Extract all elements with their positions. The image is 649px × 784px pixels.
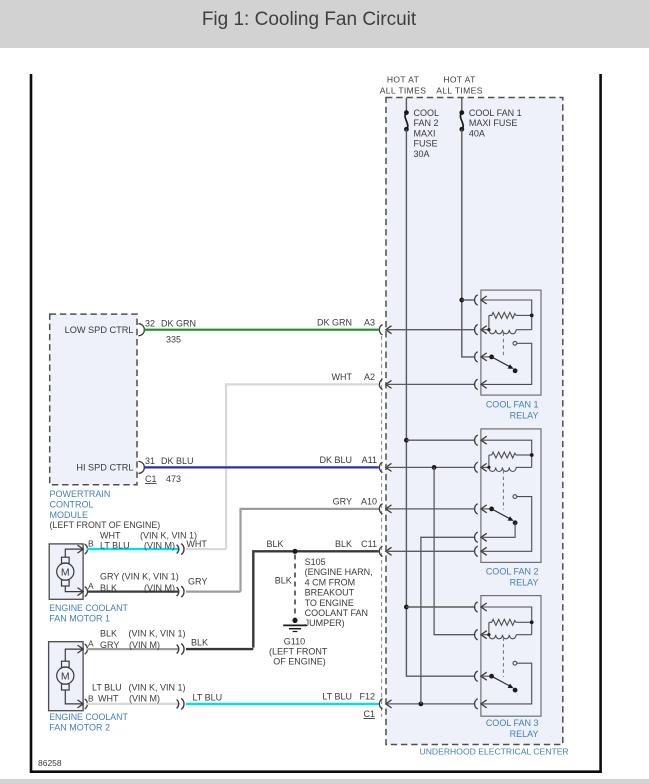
junction dot fuse2/relay3 pin1	[404, 605, 409, 610]
wire GRY after connector	[186, 590, 241, 592]
svg-text:WHT: WHT	[100, 530, 121, 540]
junction dot fuse1/relay1 pin1	[459, 298, 464, 303]
svg-text:HOT AT: HOT AT	[443, 75, 475, 85]
svg-text:COOL: COOL	[414, 108, 440, 118]
wire GRY/BLK motor2 A segment	[87, 648, 179, 650]
svg-text:(VIN K, VIN 1): (VIN K, VIN 1)	[129, 629, 186, 639]
svg-text:A10: A10	[361, 496, 377, 506]
svg-text:GRY: GRY	[188, 577, 207, 587]
svg-text:LT BLU: LT BLU	[100, 540, 130, 550]
junction dot resistor/right leg (relay2)	[530, 453, 534, 457]
svg-text:ENGINE COOLANT: ENGINE COOLANT	[49, 603, 128, 613]
COOL FAN 3 RELAY box	[481, 596, 541, 717]
inline connector (motor1 A)	[177, 586, 184, 597]
svg-text:OF ENGINE): OF ENGINE)	[273, 657, 326, 667]
wire DK BLU 473 (PCM 31 to UEC A11)	[144, 466, 379, 468]
junction dot resistor/right leg	[530, 314, 534, 318]
label S105 (ENGINE HARN, 4 CM FROM BREAKOUT TO ENGINE COOLANT FAN JUMPER)	[305, 557, 373, 628]
svg-text:86258: 86258	[38, 758, 62, 768]
motor2 terminal B	[78, 699, 88, 709]
svg-text:GRY: GRY	[100, 640, 119, 650]
connector F12	[379, 699, 391, 709]
wire F12 to relay3 pin4	[386, 703, 475, 705]
PCM pin 31	[138, 461, 144, 473]
relay1 NO contact circle	[513, 341, 517, 345]
wire WHT (corner from motor1 B up to UEC A2)	[226, 384, 379, 549]
svg-text:RELAY: RELAY	[510, 578, 539, 588]
svg-text:A: A	[88, 639, 94, 649]
wire fuse2 to relay3 pin1	[406, 606, 475, 608]
svg-text:COOLANT FAN: COOLANT FAN	[305, 608, 368, 618]
svg-text:DK GRN: DK GRN	[317, 317, 352, 327]
svg-text:(VIN M): (VIN M)	[129, 640, 160, 650]
svg-text:ALL TIMES: ALL TIMES	[380, 86, 427, 96]
junction dot coil/left leg	[487, 328, 490, 331]
POWERTRAIN CONTROL MODULE dashed box	[50, 314, 137, 485]
junction dot F12 branch	[419, 702, 424, 707]
wire WHT/LT BLU motor2 B segment	[87, 703, 179, 705]
connector A2	[379, 379, 391, 389]
svg-text:A: A	[88, 581, 94, 591]
wire A3 to relay1 coil	[386, 329, 475, 331]
ENGINE COOLANT FAN MOTOR 1 box	[49, 544, 83, 599]
svg-text:HI SPD CTRL: HI SPD CTRL	[76, 463, 133, 473]
svg-text:DK BLU: DK BLU	[161, 456, 194, 466]
svg-text:BLK: BLK	[191, 637, 208, 647]
wire BLK (corner from motor2 A up and right to UEC C11)	[253, 551, 378, 647]
relay1 pin connectors	[475, 295, 487, 305]
motor1 terminal A	[78, 587, 88, 597]
svg-text:LOW SPD CTRL: LOW SPD CTRL	[65, 325, 134, 335]
fuse COOL FAN 1 MAXI FUSE 40A	[459, 98, 464, 132]
svg-text:F12: F12	[359, 691, 375, 701]
wire A2 to relay1 contact	[386, 383, 475, 385]
svg-text:RELAY: RELAY	[510, 729, 539, 739]
svg-text:G110: G110	[284, 636, 305, 646]
wire A11 to relay2 coil	[386, 466, 475, 468]
svg-text:BLK: BLK	[100, 629, 117, 639]
svg-text:WHT: WHT	[332, 372, 353, 382]
wire LT BLU (motor2 B to UEC F12)	[186, 703, 379, 705]
svg-text:(ENGINE HARN,: (ENGINE HARN,	[305, 567, 373, 577]
connector A11	[379, 462, 391, 472]
svg-text:B: B	[88, 539, 94, 549]
ground G110	[283, 618, 307, 632]
svg-text:BLK: BLK	[335, 539, 352, 549]
svg-text:(VIN M): (VIN M)	[144, 583, 175, 593]
svg-text:DK BLU: DK BLU	[319, 455, 352, 465]
svg-text:M: M	[61, 567, 70, 579]
wire from fuse 2 down (feeds relay 2 pin1, relay 3 pin1 and pin3)	[406, 129, 475, 676]
wire relay2 pin4 down to F12 row	[421, 537, 475, 704]
motor M2 symbol	[57, 649, 83, 704]
resistor (relay2 coil suppression)	[489, 452, 516, 458]
inline connector (motor2 B)	[177, 698, 184, 709]
motor1 terminal B	[78, 544, 88, 554]
wire fuse2 to relay2 pin1	[406, 439, 475, 441]
svg-text:C1: C1	[363, 709, 375, 719]
svg-text:31: 31	[145, 456, 155, 466]
svg-text:B: B	[88, 693, 94, 703]
motor M1 symbol	[57, 549, 83, 592]
COOL FAN 1 RELAY box	[481, 290, 541, 395]
svg-text:MAXI: MAXI	[414, 128, 436, 138]
svg-text:473: 473	[166, 474, 181, 484]
wire NO contact to pin4	[481, 343, 532, 384]
wire fuse1 to relay1 pin1	[462, 299, 475, 301]
junction dot resistor/right leg (relay3)	[530, 620, 534, 624]
wire A10 to relay2 switch common	[386, 508, 475, 510]
relay2 pin connectors	[475, 435, 487, 445]
connector C11	[379, 546, 391, 556]
svg-text:BLK: BLK	[267, 539, 284, 549]
label COOL FAN 2 MAXI FUSE 30A	[414, 108, 440, 159]
svg-text:COOL FAN 3: COOL FAN 3	[486, 718, 539, 728]
svg-text:MAXI FUSE: MAXI FUSE	[469, 118, 518, 128]
svg-text:32: 32	[145, 318, 155, 328]
connector A10	[379, 504, 391, 514]
drawing frame border	[30, 74, 602, 772]
junction dot coil/left leg (relay2)	[487, 466, 490, 469]
relay1 coil	[489, 330, 516, 334]
relay2 switch arm	[481, 507, 517, 526]
wire BLK/GRY motor1 A segment	[87, 590, 179, 592]
relay3 pin connectors	[475, 602, 487, 612]
relay1 switch arm	[481, 355, 517, 374]
svg-text:CONTROL: CONTROL	[50, 499, 94, 509]
svg-text:DK GRN: DK GRN	[161, 318, 196, 328]
svg-text:COOL FAN 1: COOL FAN 1	[469, 108, 522, 118]
svg-text:LT BLU: LT BLU	[92, 682, 122, 692]
svg-text:WHT: WHT	[98, 694, 119, 704]
svg-text:TO ENGINE: TO ENGINE	[305, 598, 354, 608]
svg-text:C11: C11	[361, 539, 377, 549]
splice S105 junction dot	[292, 549, 297, 554]
svg-text:C1: C1	[145, 474, 157, 484]
inline connector (motor1 B)	[177, 544, 184, 555]
svg-text:A2: A2	[364, 372, 375, 382]
svg-text:4 CM FROM: 4 CM FROM	[305, 577, 356, 587]
svg-text:A11: A11	[362, 455, 377, 465]
resistor (relay1 coil suppression)	[489, 312, 516, 318]
relay2 armature link (dashed)	[502, 470, 504, 509]
relay2 NO contact circle	[513, 495, 517, 499]
svg-text:FUSE: FUSE	[414, 139, 438, 149]
fuse COOL FAN 2 MAXI FUSE 30A	[404, 98, 409, 132]
wire WHT after connector	[186, 548, 226, 550]
COOL FAN 2 RELAY box	[481, 429, 541, 563]
svg-text:POWERTRAIN: POWERTRAIN	[50, 489, 111, 499]
relay2 internal wires	[481, 440, 532, 467]
wire NO contact to pin4 (relay3)	[481, 663, 532, 704]
svg-text:GRY: GRY	[333, 496, 352, 506]
svg-text:LT BLU: LT BLU	[322, 691, 352, 701]
junction dot coil/left leg (relay3)	[487, 633, 490, 636]
svg-text:LT BLU: LT BLU	[193, 692, 223, 702]
svg-text:ALL TIMES: ALL TIMES	[436, 86, 483, 96]
svg-text:(VIN M): (VIN M)	[144, 540, 175, 550]
resistor (relay3 coil suppression)	[489, 619, 516, 625]
svg-text:ENGINE COOLANT: ENGINE COOLANT	[49, 712, 128, 722]
svg-text:A3: A3	[364, 317, 375, 327]
relay3 internal wires	[481, 607, 532, 635]
junction dot A11 branch	[432, 465, 437, 470]
svg-text:(VIN K, VIN 1): (VIN K, VIN 1)	[129, 682, 186, 692]
wire A11 branch down to relay3 coil	[434, 467, 475, 634]
relay3 coil	[489, 635, 516, 639]
svg-text:COOL FAN 1: COOL FAN 1	[486, 400, 539, 410]
ENGINE COOLANT FAN MOTOR 2 box	[49, 642, 84, 711]
svg-text:BLK: BLK	[100, 583, 117, 593]
inline connector (motor2 A)	[177, 644, 184, 655]
svg-text:FAN 2: FAN 2	[414, 118, 439, 128]
svg-text:M: M	[61, 671, 70, 683]
svg-text:COOL FAN 2: COOL FAN 2	[486, 567, 539, 577]
wire BLK after connector	[186, 648, 253, 650]
junction dot fuse2/relay2 pin1	[404, 438, 409, 443]
svg-text:S105: S105	[305, 557, 326, 567]
svg-text:(LEFT FRONT: (LEFT FRONT	[269, 647, 328, 657]
wire NO contact to pin5 (relay2)	[481, 497, 532, 552]
svg-text:40A: 40A	[469, 128, 485, 138]
svg-text:WHT: WHT	[186, 539, 207, 549]
svg-text:RELAY: RELAY	[510, 411, 539, 421]
svg-text:GRY (VIN K, VIN 1): GRY (VIN K, VIN 1)	[100, 572, 179, 582]
wire DK GRN 335 (PCM 32 to UEC A3)	[144, 329, 379, 331]
wire C11 to relay2 pin5	[386, 550, 475, 552]
relay1 internal wires	[481, 300, 532, 330]
wire LT BLU/WHT motor1 B segment	[87, 548, 179, 550]
relay3 NO contact circle	[513, 661, 517, 665]
relay3 armature link (dashed)	[502, 638, 504, 677]
motor2 terminal A	[78, 644, 88, 654]
PCM pin 32	[138, 324, 144, 336]
wire from fuse 1 down (feeds relay 1 pin1 and pin3)	[462, 129, 475, 357]
svg-text:HOT AT: HOT AT	[387, 75, 419, 85]
svg-text:FAN MOTOR 2: FAN MOTOR 2	[49, 723, 110, 733]
svg-text:UNDERHOOD ELECTRICAL CENTER: UNDERHOOD ELECTRICAL CENTER	[420, 747, 569, 757]
relay2 coil	[489, 467, 516, 471]
relay1 armature link (dashed)	[502, 333, 504, 358]
svg-text:(LEFT FRONT OF ENGINE): (LEFT FRONT OF ENGINE)	[50, 520, 161, 530]
wire NC contact to pin4 (relay2)	[481, 523, 515, 538]
label COOL FAN 1 MAXI FUSE 40A	[469, 108, 522, 138]
UNDERHOOD ELECTRICAL CENTER dashed box	[386, 98, 563, 745]
svg-text:30A: 30A	[414, 149, 430, 159]
relay3 switch arm	[481, 674, 517, 693]
connector C1 face dashed line	[381, 336, 383, 717]
svg-text:JUMPER): JUMPER)	[305, 618, 345, 628]
wire GRY (corner from motor1 A up to UEC A10)	[241, 509, 379, 592]
svg-text:(VIN M): (VIN M)	[129, 694, 160, 704]
svg-text:MODULE: MODULE	[50, 510, 89, 520]
connector A3	[379, 325, 391, 335]
svg-text:335: 335	[166, 335, 181, 345]
svg-text:BLK: BLK	[275, 576, 292, 586]
svg-text:BREAKOUT: BREAKOUT	[305, 588, 355, 598]
wire BLK jumper S105 to G110 (dashed)	[294, 555, 296, 619]
svg-text:FAN MOTOR 1: FAN MOTOR 1	[49, 614, 110, 624]
